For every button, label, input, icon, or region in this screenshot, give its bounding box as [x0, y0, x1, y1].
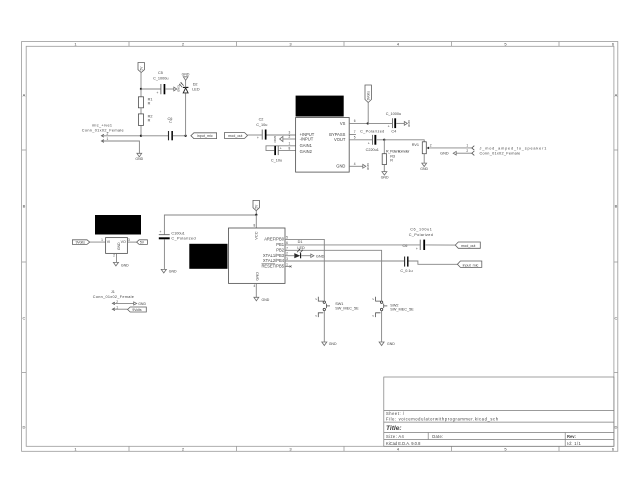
wire pot bottom — [423, 154, 425, 163]
svg-text:R_Potentiometer: R_Potentiometer — [386, 149, 410, 153]
svg-text:C: C — [23, 316, 26, 321]
connector J_mod_amped_to_speaker1 — [466, 144, 547, 156]
capacitor C6_100u1 — [402, 228, 433, 252]
svg-text:R: R — [390, 159, 393, 163]
svg-text:XTAL1/PB3: XTAL1/PB3 — [263, 253, 285, 258]
wire mic pin1 — [102, 141, 140, 153]
svg-text:3: 3 — [128, 238, 130, 242]
wire C220u1 to junction — [377, 139, 385, 141]
wire 5V stem — [140, 73, 142, 90]
capacitor C220u1 — [360, 130, 385, 152]
svg-text:PB2: PB2 — [276, 248, 284, 253]
resistor R1 — [138, 89, 152, 108]
wire C2 to +INPUT pin3 — [267, 134, 296, 136]
wire GND pin4 — [349, 165, 362, 167]
node junction LED column — [184, 135, 186, 137]
wire mod_out to C2 — [248, 134, 262, 136]
wire reg GND pin2 — [116, 253, 118, 262]
svg-text:R: R — [148, 119, 151, 123]
GND label (D1) — [311, 254, 325, 258]
svg-text:GND: GND — [336, 164, 345, 169]
wire J1 pin2 to GND label — [113, 302, 134, 304]
svg-text:+: + — [416, 247, 418, 251]
node junction 9Volts — [367, 122, 369, 124]
microcontroller U (MCU) — [229, 228, 286, 283]
global label 9Volts (J1) — [128, 307, 147, 312]
svg-text:Size: A4: Size: A4 — [386, 434, 405, 439]
svg-text:mod_out: mod_out — [228, 134, 242, 138]
capacitor C5 — [153, 71, 174, 95]
ground (C100u1) — [161, 269, 177, 273]
LED D2 — [179, 82, 200, 93]
svg-text:VCC: VCC — [254, 231, 259, 239]
svg-text:GND: GND — [440, 152, 449, 156]
svg-text:GND: GND — [182, 72, 190, 76]
global label 5V (reg output) — [137, 240, 148, 245]
svg-text:input_mic: input_mic — [197, 134, 213, 138]
ground (pot) — [420, 163, 428, 171]
wire LED column — [185, 93, 187, 136]
switch SW2 SW_MEC_5E — [371, 297, 414, 317]
svg-text:2: 2 — [113, 253, 115, 257]
wire 5V stem MCU — [255, 211, 257, 215]
svg-text:GND: GND — [169, 270, 177, 274]
svg-text:5V: 5V — [140, 241, 145, 245]
svg-text:LED: LED — [297, 246, 305, 250]
wire LED to GND — [185, 80, 187, 87]
svg-text:mod_out: mod_out — [461, 244, 475, 248]
power label 5V (top left) — [138, 63, 144, 73]
svg-text:RV1: RV1 — [412, 143, 419, 147]
wire junction to VCC pin — [255, 215, 257, 228]
svg-text:GND: GND — [273, 136, 277, 144]
resistor R3 — [382, 140, 395, 172]
svg-text:GND: GND — [138, 302, 146, 306]
wire SW1 to GND — [323, 311, 325, 342]
svg-text:GND: GND — [366, 163, 370, 171]
svg-text:C220u1: C220u1 — [366, 148, 379, 152]
wire pin2 to LED — [285, 255, 294, 257]
wire pin6 to C6_100u1 — [285, 244, 420, 246]
svg-text:D: D — [614, 425, 617, 430]
ground (R3) — [381, 172, 389, 180]
wire to C4 — [368, 122, 392, 124]
svg-text:SW_MEC_5E: SW_MEC_5E — [390, 308, 414, 312]
svg-text:9Volts: 9Volts — [76, 241, 86, 245]
svg-text:C_Polarized: C_Polarized — [171, 237, 196, 241]
wire -INPUT pin2 stub — [283, 138, 296, 140]
LED D1 — [294, 240, 305, 258]
ground (SW1) — [322, 342, 337, 346]
svg-text:VI: VI — [107, 240, 110, 244]
wire BYPASS pin7 stub — [349, 134, 356, 136]
black box (redacted MCU ref) — [189, 244, 227, 269]
GND hierarchical label (pin4) — [363, 163, 370, 171]
svg-text:9Volts: 9Volts — [132, 308, 142, 312]
wire VS pin6 — [349, 122, 368, 124]
wire C_0.1u to input_mic — [409, 261, 458, 264]
svg-text:1: 1 — [107, 137, 109, 141]
svg-text:Title:: Title: — [386, 425, 402, 432]
op-amp U (LM386) body — [296, 118, 350, 173]
power label 5V (MCU) — [253, 200, 259, 210]
wire C6_100u1 to mod_out — [426, 244, 456, 246]
svg-text:6: 6 — [354, 119, 356, 123]
wire VO to 5V — [127, 241, 136, 243]
GND hierarchical label (after C4) — [404, 120, 411, 128]
regulator U (VI/VO) — [106, 238, 128, 254]
svg-text:GND: GND — [135, 157, 143, 161]
wire pin3 to C_0.1u — [285, 260, 404, 262]
global label mod_out (top) — [224, 133, 247, 139]
global label 9Volts (reg input) — [72, 240, 89, 245]
wire 9Volts to VI — [90, 241, 106, 243]
wire LED to GND label — [301, 255, 311, 257]
svg-text:C_0.1u: C_0.1u — [400, 269, 412, 273]
svg-text:GND: GND — [407, 120, 411, 128]
GND hierarchical label (after C5, rotated) — [174, 85, 181, 93]
node junction top rail — [140, 88, 142, 90]
svg-text:C_1000u: C_1000u — [386, 112, 401, 116]
svg-text:6: 6 — [286, 241, 288, 245]
svg-text:Rev:: Rev: — [567, 434, 576, 439]
svg-text:C: C — [614, 316, 617, 321]
svg-text:D2: D2 — [193, 82, 198, 86]
svg-text:2: 2 — [289, 135, 291, 139]
ground (above LED, flipped) — [182, 72, 190, 80]
svg-text:Date:: Date: — [432, 434, 443, 439]
svg-text:R: R — [148, 101, 151, 105]
title block — [384, 377, 614, 446]
capacitor C4 — [386, 112, 401, 133]
wire junction to pot — [384, 140, 424, 142]
svg-text:GND: GND — [316, 254, 325, 258]
svg-text:C100u1: C100u1 — [171, 231, 184, 235]
svg-text:LED: LED — [192, 88, 200, 92]
svg-text:GAIN1: GAIN1 — [300, 143, 313, 148]
svg-text:C_Polarized: C_Polarized — [360, 130, 385, 134]
wire mic pin2 to rail — [102, 135, 141, 137]
GND label at -INPUT — [273, 136, 283, 144]
wire pin5 to SW1 — [285, 239, 324, 301]
ground (SW2) — [379, 342, 395, 346]
node junction rail / R2 — [140, 135, 142, 137]
svg-text:2: 2 — [107, 132, 109, 136]
svg-text:GND: GND — [420, 167, 428, 171]
svg-text:+: + — [159, 230, 161, 234]
ground (regulator) — [113, 262, 129, 267]
connector J1 Conn_01x02_Female — [93, 290, 134, 311]
resistor R2 — [138, 114, 152, 136]
wire C6 to label — [173, 135, 186, 137]
svg-text:KiCad E.D.A. 9.0.8: KiCad E.D.A. 9.0.8 — [386, 441, 421, 446]
capacitor C_10u (gain) — [271, 146, 282, 163]
wire C4 to GND label — [396, 122, 404, 124]
node junction VCC — [255, 214, 257, 216]
svg-text:input_mic: input_mic — [463, 263, 479, 267]
GND label (J1) — [134, 302, 147, 306]
wire R1-R2 — [140, 108, 142, 114]
GND label (speaker pin2) — [440, 151, 456, 155]
wire MCU GND pin — [255, 283, 257, 297]
svg-text:GND: GND — [121, 263, 129, 267]
svg-text:C_10u: C_10u — [256, 123, 267, 127]
svg-text:-INPUT: -INPUT — [300, 136, 314, 141]
node junction R3 — [383, 139, 385, 141]
svg-text:1: 1 — [286, 262, 288, 266]
capacitor C100u1 — [159, 230, 196, 241]
power label 9Volts (vertical) — [365, 85, 371, 103]
svg-text:Conn_01x02_Female: Conn_01x02_Female — [82, 129, 124, 133]
wire J1 pin1 to 9Volts — [113, 308, 128, 310]
svg-text:7: 7 — [286, 246, 288, 250]
wire SW2 to GND — [381, 311, 383, 342]
svg-text:D: D — [23, 425, 26, 430]
wire C100u1 bottom to GND — [163, 239, 165, 269]
svg-text:8: 8 — [289, 147, 291, 151]
svg-text:5: 5 — [286, 235, 288, 239]
ground (MCU) — [254, 297, 270, 302]
svg-text:XTAL2/PB4: XTAL2/PB4 — [263, 258, 285, 263]
svg-text:9Volts: 9Volts — [366, 91, 370, 101]
svg-text:mic_+ive1: mic_+ive1 — [92, 123, 112, 127]
svg-text:Sheet: /: Sheet: / — [386, 411, 405, 416]
svg-text:+: + — [368, 141, 370, 145]
svg-text:Id: 1/1: Id: 1/1 — [567, 441, 582, 446]
black box (redacted regulator ref) — [95, 215, 141, 235]
svg-text:2: 2 — [430, 143, 432, 147]
potentiometer RV1 — [386, 142, 432, 154]
svg-text:VOUT: VOUT — [334, 137, 346, 142]
wire speaker pin2 — [456, 152, 472, 154]
wire rail to C6 — [141, 135, 168, 137]
svg-text:PB1: PB1 — [276, 242, 284, 247]
svg-text:VS: VS — [340, 121, 346, 126]
wire pin1 stub — [285, 265, 291, 267]
svg-text:GND: GND — [262, 298, 270, 302]
svg-text:GND: GND — [117, 242, 121, 250]
svg-text:VO: VO — [121, 240, 126, 244]
svg-text:+: + — [388, 125, 390, 129]
svg-text:3: 3 — [286, 257, 288, 261]
connector J mic Conn_01x02_Female — [82, 123, 124, 142]
wire to C5 — [141, 88, 160, 90]
svg-text:1: 1 — [289, 142, 291, 146]
svg-text:+: + — [280, 146, 282, 150]
svg-text:+: + — [156, 91, 158, 95]
svg-text:Conn_01x02_Female: Conn_01x02_Female — [480, 152, 521, 156]
wire GAIN2 pin8 — [279, 150, 296, 152]
svg-text:B: B — [615, 204, 618, 209]
wire wiper to speaker pin1 — [429, 147, 472, 149]
wire GAIN1 pin1 — [266, 146, 296, 151]
ground (mic) — [135, 153, 143, 161]
svg-text:C_1000u: C_1000u — [153, 77, 168, 81]
svg-text:C2: C2 — [259, 117, 264, 121]
global label input_mic (right) — [457, 261, 481, 267]
wire 9Volts stem — [367, 103, 369, 124]
svg-text:C_10u: C_10u — [271, 159, 282, 163]
svg-text:RESET/PB5: RESET/PB5 — [261, 264, 284, 269]
svg-text:SW1: SW1 — [335, 302, 343, 306]
svg-text:C6_100u1: C6_100u1 — [410, 228, 432, 232]
svg-text:AREF/PB0: AREF/PB0 — [264, 236, 285, 241]
svg-text:5: 5 — [354, 136, 356, 140]
svg-text:A: A — [615, 93, 618, 98]
capacitor C2 — [256, 117, 267, 140]
svg-text:1: 1 — [101, 238, 103, 242]
svg-text:8: 8 — [254, 224, 256, 228]
svg-text:Conn_01x02_Female: Conn_01x02_Female — [93, 295, 134, 299]
svg-text:1: 1 — [466, 144, 468, 148]
capacitor C_0.1u — [400, 257, 412, 273]
svg-text:GND: GND — [387, 342, 395, 346]
svg-text:7: 7 — [354, 130, 356, 134]
wire pin7 to SW2 — [285, 250, 382, 301]
svg-text:C: C — [169, 120, 172, 124]
switch SW1 SW_MEC_5E — [314, 297, 359, 317]
global label mod_out (right) — [455, 242, 480, 248]
svg-text:C4: C4 — [391, 129, 396, 133]
black box (redacted U ref) — [296, 96, 344, 117]
svg-text:4: 4 — [254, 284, 256, 288]
svg-text:GND: GND — [177, 85, 181, 93]
svg-text:GND: GND — [381, 176, 389, 180]
svg-text:A: A — [23, 93, 26, 98]
svg-text:4: 4 — [354, 162, 356, 166]
svg-text:C_Polarized: C_Polarized — [409, 233, 434, 237]
svg-text:D1: D1 — [298, 240, 303, 244]
svg-text:C5: C5 — [158, 71, 163, 75]
svg-text:2: 2 — [286, 252, 288, 256]
wire VOUT pin5 — [349, 139, 372, 141]
global label input_mic (top) — [191, 133, 217, 139]
svg-text:+: + — [257, 136, 259, 140]
capacitor C6 — [167, 117, 172, 140]
svg-text:SW_MEC_5E: SW_MEC_5E — [335, 307, 359, 311]
sheet frame — [22, 42, 618, 452]
svg-text:GND: GND — [254, 272, 259, 281]
svg-text:2: 2 — [466, 149, 468, 153]
svg-text:J_mod_amped_to_speaker1: J_mod_amped_to_speaker1 — [480, 146, 548, 150]
svg-text:J1: J1 — [111, 290, 115, 294]
svg-text:C6: C6 — [402, 244, 407, 248]
svg-text:B: B — [23, 204, 26, 209]
wire C100u1 top to 5V rail — [164, 215, 256, 235]
svg-text:File: voicemodulatorwithprogra: File: voicemodulatorwithprogrammer.kicad… — [386, 416, 499, 421]
svg-text:GAIN2: GAIN2 — [300, 149, 313, 154]
svg-text:GND: GND — [329, 342, 337, 346]
